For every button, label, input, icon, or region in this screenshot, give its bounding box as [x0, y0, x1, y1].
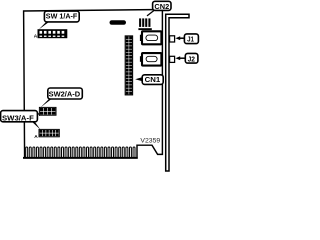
connector body 1 (to J1)	[140, 31, 162, 44]
svg-text:SW 1/A-F: SW 1/A-F	[46, 14, 78, 21]
capacitor C1 (black bar)	[110, 20, 127, 25]
DIP switch SW2	[39, 107, 56, 115]
label J1	[184, 34, 198, 44]
label SW2	[48, 88, 83, 99]
svg-text:SW3/A-F: SW3/A-F	[2, 116, 35, 123]
label CN2	[153, 1, 171, 10]
jack J1 on bracket	[170, 36, 175, 42]
svg-text:CN1: CN1	[145, 75, 161, 84]
board bottom edge under fingers	[23, 157, 138, 159]
leader wedge SW3	[31, 121, 40, 129]
svg-text:J1: J1	[187, 35, 194, 44]
svg-text:A: A	[34, 34, 38, 40]
svg-text:SW2/A-D: SW2/A-D	[49, 91, 81, 98]
label SW1	[44, 11, 79, 22]
DIP switch SW1	[38, 29, 68, 38]
metal bracket	[166, 14, 189, 171]
leader wedge SW1	[39, 22, 50, 30]
leader arrow CN1	[135, 77, 143, 81]
leader arrow J1	[175, 36, 180, 40]
leader arrow J2	[175, 56, 180, 60]
svg-text:J2: J2	[188, 54, 195, 63]
card edge connector fingers	[26, 147, 135, 158]
connector body 2 (to J2)	[140, 53, 162, 66]
svg-text:V2359: V2359	[140, 137, 160, 144]
svg-text:A: A	[34, 134, 38, 140]
leader line CN2	[147, 11, 154, 16]
leader wedge SW2	[40, 99, 52, 108]
PCB board outline	[24, 10, 163, 158]
jack J2 on bracket	[170, 56, 175, 62]
svg-text:CN2: CN2	[154, 2, 169, 11]
connector CN2 (4-pin right-angle header)	[138, 18, 151, 30]
connector CN1 (2x18 pin header)	[125, 36, 132, 95]
label CN1	[142, 75, 163, 85]
DIP switch SW3	[39, 129, 59, 136]
label J2	[185, 53, 198, 63]
label SW3	[1, 111, 38, 122]
